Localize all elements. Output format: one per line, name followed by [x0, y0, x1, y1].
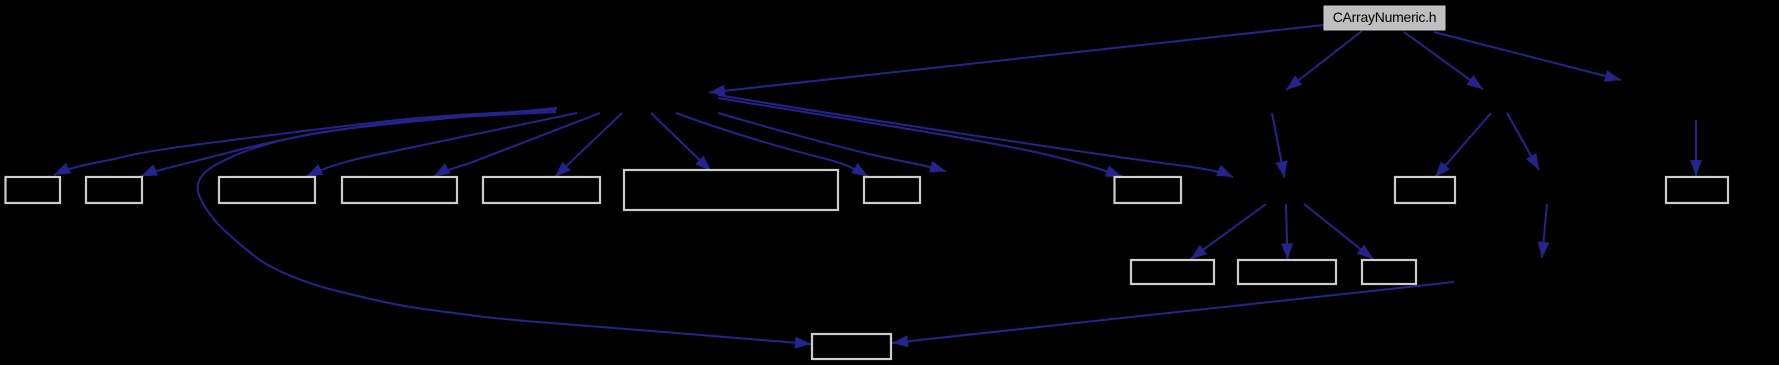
- node box8: [1115, 177, 1182, 203]
- wire: hidden node to hidden node above lower cluster: [1272, 113, 1285, 178]
- wire: CArrayNumeric.h to hidden node right-mid: [1404, 32, 1483, 89]
- wire: CArrayNumeric.h to central hub: [709, 25, 1324, 93]
- wire: hidden node to box13: [1304, 204, 1373, 259]
- wire: hub to box2: [141, 112, 556, 176]
- wire: hub to box6: [651, 113, 711, 171]
- node box4: [342, 177, 457, 203]
- node box3: [219, 177, 315, 203]
- wire: hidden node to box9: [1435, 113, 1491, 178]
- wire: hidden node down to hidden node bottom right: [1542, 204, 1547, 258]
- node box2: [86, 177, 142, 203]
- wire: hub to box4: [434, 113, 600, 177]
- wire: hub to box5: [555, 113, 622, 177]
- wire: long left curve from hub to bottom box: [198, 108, 811, 344]
- node CArrayNumeric.h: [1324, 6, 1445, 30]
- wire: CArrayNumeric.h to hidden node above lower cluster: [1286, 31, 1362, 90]
- node box10: [1666, 177, 1728, 203]
- node bottom box: [812, 334, 891, 359]
- wire: hidden node to box10: [1695, 120, 1697, 176]
- node box6: [624, 170, 838, 210]
- wire: hub to box3: [307, 113, 578, 177]
- wire: hub to box1: [54, 110, 556, 175]
- node box11: [1131, 260, 1214, 284]
- node box5: [483, 177, 600, 203]
- node box9: [1395, 177, 1455, 203]
- wire: hub to box8: [718, 98, 1122, 177]
- wire: hub to box7: [676, 113, 868, 177]
- wire: hidden node to box11: [1191, 204, 1267, 259]
- wire: CArrayNumeric.h to hidden node far right: [1434, 32, 1621, 80]
- node box7: [864, 177, 920, 203]
- wire: hub to hidden node right of box7: [718, 113, 946, 171]
- wire: hidden node to hidden node lower right: [1507, 113, 1539, 170]
- wire: hidden node to box12: [1286, 204, 1288, 260]
- svg-text:CArrayNumeric.h: CArrayNumeric.h: [1333, 9, 1437, 25]
- node box13: [1362, 260, 1416, 284]
- node box12: [1238, 260, 1336, 284]
- wire: hidden node bottom right to bottom box: [892, 282, 1454, 343]
- node box1: [6, 177, 61, 203]
- wire: hub to hidden node above lower cluster: [718, 95, 1233, 177]
